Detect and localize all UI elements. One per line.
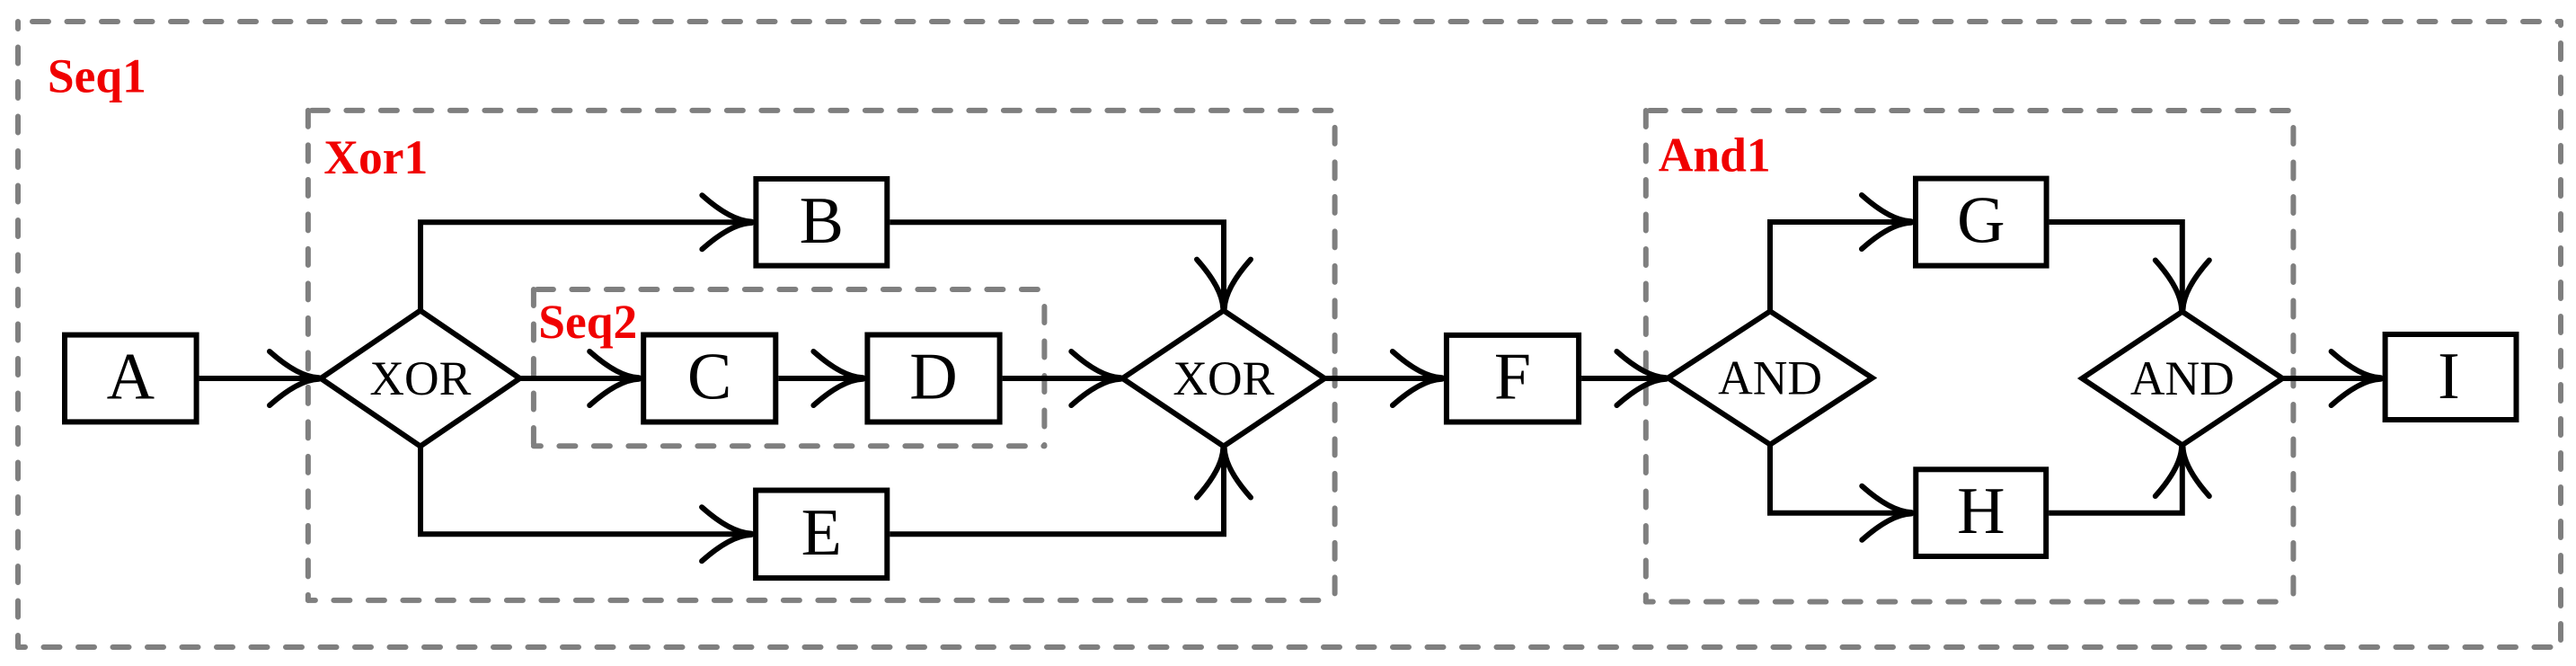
- task box B: [756, 179, 887, 266]
- svg-text:Seq1: Seq1: [48, 49, 146, 102]
- gateway AND2 diamond: [2082, 312, 2282, 446]
- wire Xor1 gateway down to E: [420, 447, 750, 535]
- task box A: [65, 335, 197, 422]
- task box C: [643, 335, 775, 422]
- task box I: [2386, 334, 2517, 420]
- task box F: [1447, 335, 1579, 422]
- svg-text:A: A: [107, 341, 155, 414]
- svg-text:G: G: [1957, 184, 2005, 258]
- task box D: [867, 335, 999, 422]
- svg-text:D: D: [909, 341, 957, 414]
- task box H: [1916, 469, 2046, 556]
- wire Xor1 gateway to C: [520, 376, 639, 381]
- wire G to And2 gateway top: [2049, 222, 2182, 308]
- svg-text:And1: And1: [1659, 129, 1771, 182]
- svg-text:Xor1: Xor1: [323, 130, 428, 184]
- cluster Seq1 dashed border: [15, 22, 21, 647]
- svg-text:E: E: [801, 496, 842, 570]
- wire D to Xor2 gateway: [1003, 376, 1120, 381]
- svg-text:Seq2: Seq2: [538, 295, 637, 349]
- svg-text:B: B: [800, 184, 844, 258]
- wire Xor1 gateway up to B: [420, 222, 750, 310]
- wire Xor2 gateway to F: [1325, 376, 1441, 381]
- wire And1 gateway down to H: [1770, 444, 1910, 513]
- wire B to Xor2 gateway top: [890, 222, 1224, 307]
- gateway XOR1 diamond: [321, 311, 520, 447]
- svg-text:H: H: [1957, 475, 2005, 548]
- wire And2 gateway to I: [2282, 376, 2379, 381]
- svg-text:AND: AND: [1718, 351, 1822, 404]
- wire A to Xor1 gateway: [199, 376, 318, 381]
- cluster Seq2 dashed border: [531, 289, 536, 446]
- wire H to And2 gateway bottom: [2049, 448, 2182, 513]
- svg-text:AND: AND: [2130, 351, 2235, 405]
- wire And1 gateway up to G: [1770, 222, 1910, 311]
- gateway AND1 diamond: [1668, 311, 1872, 444]
- task box E: [756, 491, 887, 579]
- wire C to D: [778, 376, 862, 381]
- wire F to And1 gateway: [1581, 376, 1665, 381]
- gateway XOR2 diamond: [1122, 311, 1324, 447]
- svg-text:C: C: [687, 341, 731, 414]
- wire E to Xor2 gateway bottom: [890, 449, 1224, 534]
- svg-text:XOR: XOR: [1173, 351, 1274, 405]
- svg-text:I: I: [2438, 340, 2460, 413]
- svg-text:F: F: [1494, 341, 1531, 414]
- svg-text:XOR: XOR: [369, 351, 471, 405]
- cluster Xor1 dashed border: [305, 111, 311, 600]
- cluster And1 dashed border: [1643, 111, 1649, 602]
- task box G: [1916, 179, 2047, 266]
